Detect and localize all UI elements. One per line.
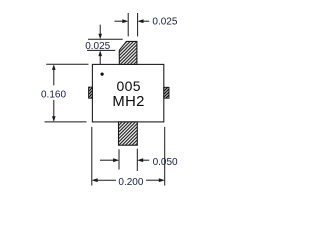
svg-text:MH2: MH2 (112, 94, 144, 110)
dim 0.050: extension line left (118, 149, 120, 169)
svg-text:0.200: 0.200 (118, 177, 143, 188)
bottom tab (hatched) (119, 122, 138, 145)
dim 0.160: top extension line (46, 63, 88, 65)
svg-text:0.025: 0.025 (152, 17, 177, 28)
dim 0.050: extension line right (136, 149, 138, 171)
dim 0.200: left arrow segment (92, 178, 116, 182)
svg-text:0.160: 0.160 (41, 89, 66, 100)
dim 0.025 top: right arrow (137, 19, 149, 23)
left side tab (89, 87, 93, 98)
dim 0.050: right arrow (137, 158, 149, 162)
dim 0.200: right arrow segment (146, 178, 165, 182)
pin 1 index dot (101, 73, 104, 76)
right side tab (164, 87, 169, 98)
dim 0.025 top: extension line right (137, 13, 139, 36)
dim 0.025 left: lower extension line (87, 49, 115, 51)
dim 0.025 left: upper arrow line (98, 25, 102, 40)
dim 0.050: left arrow (100, 158, 119, 162)
dim 0.025 left: upper extension line (88, 38, 123, 40)
dim 0.200: extension line left (91, 127, 93, 186)
top tab (hatched, chamfered) (119, 41, 137, 64)
dim 0.025 top: extension line left (127, 13, 129, 36)
dim 0.025 left: lower arrow line (98, 50, 102, 64)
dim 0.025 top: left arrow (115, 19, 129, 23)
dim 0.200: extension line right (164, 127, 166, 186)
dim 0.160: bottom extension line (45, 121, 87, 123)
svg-text:0.050: 0.050 (153, 157, 178, 168)
svg-text:005: 005 (116, 78, 140, 94)
package body outline (92, 64, 163, 122)
dim 0.160: dimension line with arrows (52, 64, 56, 122)
